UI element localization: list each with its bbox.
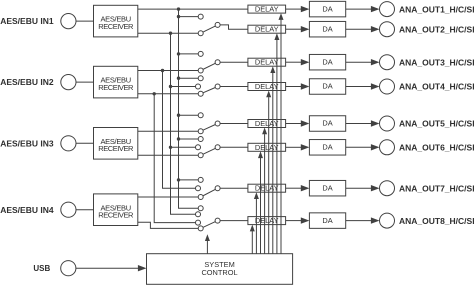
- wire J2 to receiver U2: [76, 81, 94, 83]
- DA converter DA4: [309, 79, 345, 95]
- switch SW4 upper throw contact: [198, 76, 203, 81]
- wire DELAY8 to DA8: [286, 217, 310, 223]
- output connector row 8: [380, 213, 395, 228]
- DA converter DA5: [309, 116, 345, 132]
- svg-text:DA: DA: [322, 24, 332, 33]
- wire system control to DELAY2 (control line 2): [274, 33, 279, 254]
- switch SW4 lower throw contact: [198, 91, 203, 96]
- svg-text:USB: USB: [33, 264, 50, 273]
- delay block DELAY7: [248, 184, 286, 193]
- output connector row 3: [380, 55, 395, 70]
- switch SW8 second middle throw contact: [196, 220, 201, 225]
- delay block DELAY2: [248, 25, 286, 34]
- input label AES/EBU IN2: [0, 77, 54, 87]
- delay block DELAY5: [248, 119, 286, 128]
- switch SW4 middle throw contact: [196, 84, 201, 89]
- svg-text:DELAY: DELAY: [255, 5, 279, 14]
- wire switch SW6 pole to DELAY6: [220, 146, 248, 148]
- svg-text:CONTROL: CONTROL: [201, 268, 237, 277]
- delay block DELAY3: [248, 58, 286, 67]
- output label ANA_OUT3_H/C/S: [399, 57, 474, 67]
- wire DELAY7 to DA7: [286, 185, 310, 191]
- svg-text:DELAY: DELAY: [255, 216, 279, 225]
- wire DA6 to output connector: [346, 144, 380, 150]
- bus V4 vertical (net AES2R) to switch SW8 middle throw: [154, 94, 198, 223]
- DA converter DA1: [309, 1, 345, 17]
- wire system control to DELAY6 (control line 6): [258, 151, 263, 253]
- svg-text:DELAY: DELAY: [255, 184, 279, 193]
- wire receiver U4 lower output to switch SW8 lower throw (net AES4R): [138, 222, 201, 228]
- svg-text:DA: DA: [322, 57, 332, 66]
- wire receiver U1 lower output to switch SW2 lower throw (net AES1R): [138, 32, 201, 34]
- wire switch SW3 pole to DELAY3: [220, 61, 248, 63]
- switch SW7 pole contact: [215, 186, 220, 191]
- switch SW2 pole contact: [215, 22, 220, 27]
- wire J4 to receiver U4: [76, 209, 94, 211]
- svg-text:ANA_OUT6_H/C/SH: ANA_OUT6_H/C/SH: [399, 143, 474, 153]
- switch SW5 upper throw contact: [198, 113, 203, 118]
- wire receiver U3 lower output to switch SW6 lower throw (net AES3R): [138, 154, 201, 156]
- bus V1 vertical (net AES1L): [179, 9, 201, 208]
- switch SW8 arm: [201, 221, 218, 229]
- svg-text:AES/EBU IN3: AES/EBU IN3: [0, 138, 54, 148]
- svg-text:DA: DA: [322, 82, 332, 91]
- wire J3 to receiver U3: [76, 142, 94, 144]
- wire DA2 to output connector: [346, 26, 380, 32]
- wire J1 to receiver U1: [76, 20, 94, 22]
- DA converter DA2: [309, 21, 345, 37]
- svg-text:DELAY: DELAY: [255, 58, 279, 67]
- wire DELAY4 to DA4: [286, 83, 310, 89]
- switch SW5 pole contact: [215, 121, 220, 126]
- svg-text:DA: DA: [322, 143, 332, 152]
- switch SW6 middle throw contact: [196, 145, 201, 150]
- output label ANA_OUT8_H/C/S: [399, 216, 474, 226]
- svg-text:ANA_OUT8_H/C/SH: ANA_OUT8_H/C/SH: [399, 216, 474, 226]
- input connector J4: [61, 202, 76, 217]
- wire DA3 to output connector: [346, 59, 380, 65]
- output label ANA_OUT2_H/C/S: [399, 24, 474, 34]
- wire DA4 to output connector: [346, 83, 380, 89]
- wire receiver U1 upper output to DELAY1 (net AES1L): [138, 8, 248, 10]
- wire bus V1 stub to switch SW4 upper throw: [177, 77, 201, 80]
- wire switch SW8 pole to DELAY8: [220, 220, 248, 222]
- node AES1L junction on bus V1: [177, 7, 180, 10]
- switch SW8 middle throw contact: [196, 212, 201, 217]
- wire DELAY2 to DA2: [286, 26, 310, 32]
- switch SW4 arm: [201, 87, 218, 94]
- output label ANA_OUT4_H/C/S: [399, 82, 474, 92]
- node AES1R junction on bus V2: [169, 32, 172, 35]
- svg-text:DELAY: DELAY: [255, 143, 279, 152]
- svg-text:AES/EBU IN1: AES/EBU IN1: [0, 16, 54, 26]
- switch SW8 upper throw contact: [198, 206, 203, 211]
- svg-text:DA: DA: [322, 119, 332, 128]
- svg-text:RECEIVER: RECEIVER: [98, 22, 134, 31]
- switch SW6 upper throw contact: [198, 137, 203, 142]
- output label ANA_OUT5_H/C/S: [399, 119, 474, 129]
- wire DA5 to output connector: [346, 120, 380, 126]
- wire bus V1 stub to switch SW5 upper throw: [177, 114, 201, 117]
- output connector row 6: [380, 140, 395, 155]
- svg-text:DELAY: DELAY: [255, 82, 279, 91]
- switch SW7 middle throw contact: [196, 186, 201, 191]
- bus V3 vertical (net AES2L) to switch SW7 middle throw: [163, 71, 199, 189]
- wire switch SW5 pole to DELAY5: [220, 123, 248, 125]
- svg-text:RECEIVER: RECEIVER: [98, 83, 134, 92]
- output connector row 7: [380, 181, 395, 196]
- wire system control to DELAY4 (control line 4): [266, 91, 271, 254]
- svg-text:RECEIVER: RECEIVER: [98, 144, 134, 153]
- node AES2L junction on bus V3: [161, 69, 164, 72]
- input label AES/EBU IN4: [0, 205, 54, 215]
- USB connector: [61, 261, 76, 276]
- switch SW6 pole contact: [215, 145, 220, 150]
- wire system control to DELAY3 (control line 3): [270, 66, 275, 254]
- wire USB to system control: [76, 265, 147, 271]
- switch SW7 arm: [201, 188, 218, 197]
- switch SW2 arm: [201, 25, 218, 33]
- system control block U5: [147, 254, 293, 285]
- wire system control switch-select line: [205, 234, 210, 254]
- switch SW5 arm: [201, 124, 218, 132]
- wire bus V1 stub to switch SW2 upper throw: [177, 15, 201, 18]
- wire bus V1 stub to switch SW6 upper throw: [177, 137, 201, 140]
- input connector J1: [61, 14, 76, 29]
- svg-text:ANA_OUT1_H/C/SH: ANA_OUT1_H/C/SH: [399, 4, 474, 14]
- output label ANA_OUT6_H/C/S: [399, 143, 474, 153]
- svg-text:ANA_OUT4_H/C/SH: ANA_OUT4_H/C/SH: [399, 82, 474, 92]
- switch SW2 lower throw contact: [198, 31, 203, 36]
- output connector row 5: [380, 116, 395, 131]
- wire DA8 to output connector: [346, 217, 380, 223]
- wire DELAY5 to DA5: [286, 120, 310, 126]
- svg-text:DA: DA: [322, 183, 332, 192]
- input connector J3: [61, 136, 76, 151]
- switch SW3 pole contact: [215, 60, 220, 65]
- input label AES/EBU IN3: [0, 138, 54, 148]
- wire receiver U3 upper output to switch SW5 lower throw (net AES3L): [138, 130, 201, 132]
- delay block DELAY1: [248, 5, 286, 14]
- USB label: [33, 264, 50, 273]
- switch SW3 upper throw contact: [198, 51, 203, 56]
- wire switch SW4 pole to DELAY4: [220, 86, 248, 88]
- DA converter DA8: [309, 213, 345, 229]
- output label ANA_OUT7_H/C/S: [399, 183, 474, 193]
- wire bus V1 stub to switch SW7 upper throw: [177, 178, 201, 181]
- wire receiver U4 upper output to switch SW7 lower throw (net AES4L): [138, 196, 201, 198]
- wire DELAY1 to DA1: [286, 6, 310, 12]
- switch SW3 lower throw contact: [198, 68, 203, 73]
- DA converter DA7: [309, 180, 345, 196]
- svg-text:DA: DA: [322, 4, 332, 13]
- output connector row 4: [380, 79, 395, 94]
- wire bus V2 stub to switch SW6 middle throw: [169, 146, 198, 149]
- svg-text:ANA_OUT2_H/C/SH: ANA_OUT2_H/C/SH: [399, 24, 474, 34]
- wire receiver U2 upper output to switch SW3 lower throw (net AES2L): [138, 70, 201, 72]
- wire system control to DELAY7 (control line 7): [254, 192, 259, 254]
- switch SW7 lower throw contact: [198, 195, 203, 200]
- wire DA1 to output connector: [346, 6, 380, 12]
- AES/EBU receiver U4: [94, 194, 138, 226]
- svg-text:RECEIVER: RECEIVER: [98, 211, 134, 220]
- switch SW6 arm: [201, 147, 218, 155]
- svg-text:DA: DA: [322, 216, 332, 225]
- wire switch SW7 pole to DELAY7: [220, 187, 248, 189]
- delay block DELAY8: [248, 216, 286, 225]
- wire system control to DELAY1 (control line 1): [279, 13, 284, 254]
- svg-text:AES/EBU IN4: AES/EBU IN4: [0, 205, 54, 215]
- switch SW8 lower throw contact: [198, 226, 203, 231]
- output connector row 2: [380, 22, 395, 37]
- wire receiver U2 lower output to switch SW4 lower throw (net AES2R): [138, 93, 201, 95]
- wire DA7 to output connector: [346, 185, 380, 191]
- switch SW2 upper throw contact: [198, 14, 203, 19]
- switch SW7 upper throw contact: [198, 177, 203, 182]
- output label ANA_OUT1_H/C/S: [399, 4, 474, 14]
- DA converter DA6: [309, 140, 345, 156]
- wire bus V1 stub to switch SW3 upper throw: [177, 52, 201, 55]
- AES/EBU receiver U3: [94, 128, 138, 160]
- DA converter DA3: [309, 54, 345, 69]
- switch SW3 arm: [201, 62, 218, 70]
- bus V2 vertical (net AES1R): [171, 33, 199, 214]
- svg-text:DELAY: DELAY: [255, 25, 279, 34]
- input connector J2: [61, 75, 76, 90]
- svg-text:AES/EBU IN2: AES/EBU IN2: [0, 77, 54, 87]
- wire bus V2 stub to switch SW4 middle throw: [169, 85, 198, 88]
- svg-text:ANA_OUT5_H/C/SH: ANA_OUT5_H/C/SH: [399, 119, 474, 129]
- svg-text:DELAY: DELAY: [255, 119, 279, 128]
- wire system control to DELAY8 (control line 8): [250, 225, 255, 254]
- wire DELAY6 to DA6: [286, 144, 310, 150]
- node AES2R junction on bus V4: [153, 92, 156, 95]
- delay block DELAY4: [248, 82, 286, 91]
- switch SW6 lower throw contact: [198, 153, 203, 158]
- svg-text:ANA_OUT7_H/C/SH: ANA_OUT7_H/C/SH: [399, 183, 474, 193]
- wire system control to DELAY5 (control line 5): [262, 128, 267, 254]
- switch SW4 pole contact: [215, 84, 220, 89]
- delay block DELAY6: [248, 143, 286, 152]
- output connector row 1: [380, 2, 395, 17]
- switch SW8 pole contact: [215, 218, 220, 223]
- AES/EBU receiver U1: [94, 5, 138, 37]
- input label AES/EBU IN1: [0, 16, 54, 26]
- wire DELAY3 to DA3: [286, 59, 310, 65]
- svg-text:ANA_OUT3_H/C/SH: ANA_OUT3_H/C/SH: [399, 57, 474, 67]
- switch SW5 lower throw contact: [198, 129, 203, 134]
- AES/EBU receiver U2: [94, 66, 138, 98]
- wire switch SW2 pole to DELAY2: [220, 25, 248, 29]
